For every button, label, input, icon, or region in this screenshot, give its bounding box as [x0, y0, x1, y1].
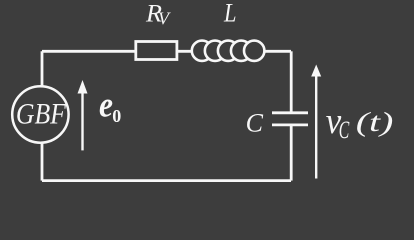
svg-text:e: e — [99, 85, 113, 125]
svg-text:V: V — [158, 9, 171, 29]
svg-text:(t): (t) — [356, 107, 394, 137]
svg-text:C: C — [339, 117, 350, 144]
svg-text:GBF: GBF — [16, 98, 67, 131]
svg-text:C: C — [246, 109, 264, 138]
svg-text:0: 0 — [112, 106, 121, 126]
svg-text:L: L — [223, 0, 236, 28]
